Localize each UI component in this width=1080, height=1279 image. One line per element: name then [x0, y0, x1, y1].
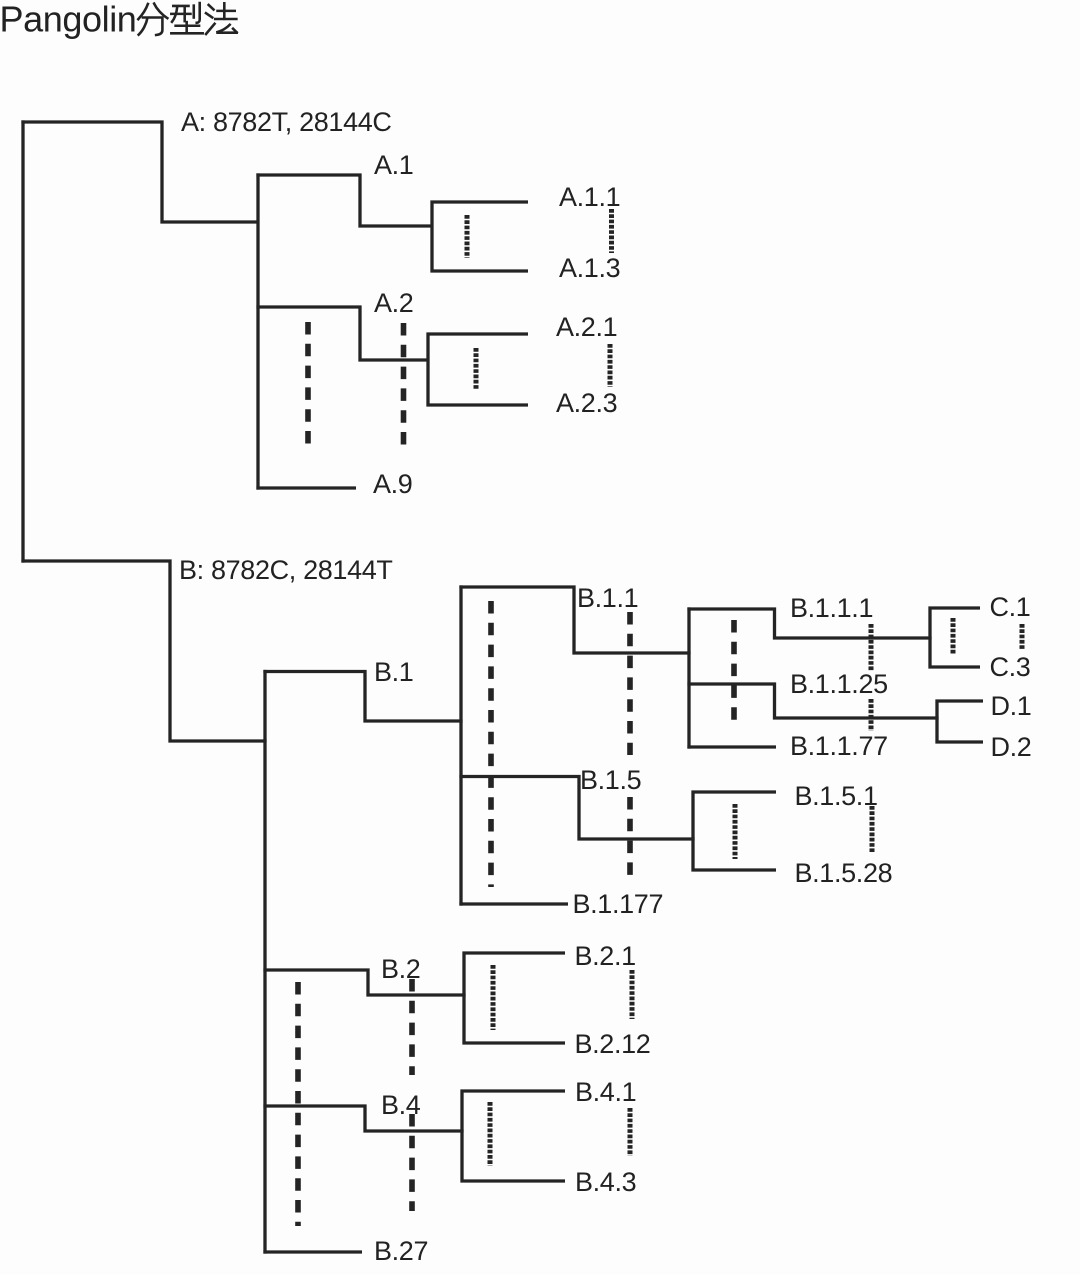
dotted A.1 bracket [465, 215, 470, 258]
clade bracket C.1-C.3 [928, 606, 980, 668]
svg-text:B.2.12: B.2.12 [575, 1029, 651, 1059]
clade bracket A.1.1-A.1.3 [430, 200, 528, 272]
wire A top [21, 120, 259, 223]
dotted B.2 bracket [491, 965, 496, 1030]
clade bracket B.4.1-B.4.3 [460, 1089, 565, 1182]
svg-text:A.2.3: A.2.3 [556, 388, 617, 418]
dotted B.4 bracket [488, 1102, 493, 1166]
title CJK 法 [206, 3, 237, 34]
branch A.9 [256, 486, 356, 489]
dashed lineages under A.2 right [401, 323, 407, 449]
branch B.1.1.1 [687, 607, 931, 639]
clade bracket B.2.1-B.2.12 [462, 951, 565, 1044]
clade bracket B.1.1 children [687, 607, 690, 748]
dashed lineages in B.1 bracket [488, 601, 494, 887]
dashed lineages B.1.1/B.1.5 column lower [627, 797, 633, 875]
dotted B.1.5 bracket [733, 804, 738, 859]
branch B.2 [263, 968, 465, 996]
svg-text:B.1: B.1 [374, 657, 413, 687]
svg-text:B.1.1: B.1.1 [577, 583, 638, 613]
dotted below B.1.1.25 [869, 699, 874, 731]
branch B.1.177 [459, 902, 568, 905]
dotted between B.4.1 and B.4.3 [628, 1108, 633, 1156]
dashed lineages B.1.1/B.1.5 column upper [627, 612, 633, 755]
svg-text:B.2.1: B.2.1 [575, 941, 636, 971]
dotted between B.1.5.1 and B.1.5.28 [870, 806, 875, 852]
wire B top [21, 559, 266, 742]
svg-text:B.1.1.77: B.1.1.77 [790, 731, 888, 761]
branch B.1.1 [459, 585, 690, 654]
dashed lineages under A.2 left [305, 322, 311, 448]
svg-text:B: 8782C, 28144T: B: 8782C, 28144T [179, 555, 393, 585]
svg-text:B.1.5: B.1.5 [580, 765, 641, 795]
branch B.1 [263, 670, 462, 723]
dashed lineages B.1.1.x column [731, 620, 737, 728]
svg-text:A.2: A.2 [374, 288, 413, 318]
svg-text:B.4.1: B.4.1 [575, 1077, 636, 1107]
clade bracket B.1.5.1-B.1.5.28 [691, 790, 776, 871]
clade bracket A.2.1-A.2.3 [426, 332, 528, 406]
wire B spine [263, 670, 266, 1254]
svg-text:B.4: B.4 [381, 1090, 421, 1120]
dashed lineages B.4 column [409, 1114, 415, 1211]
svg-text:A.1.3: A.1.3 [559, 253, 620, 283]
title CJK 分 [138, 4, 167, 35]
svg-text:B.1.5.28: B.1.5.28 [795, 858, 893, 888]
dotted between C.1 and C.3 [1020, 624, 1025, 650]
fine dotted elision marks [467, 209, 1022, 1166]
svg-text:B.1.177: B.1.177 [573, 889, 664, 919]
dotted A.2 bracket [474, 348, 479, 390]
coarse dashed elided lineage marks [298, 322, 734, 1226]
svg-text:B.4.3: B.4.3 [575, 1167, 636, 1197]
branch B.27 [263, 1250, 362, 1253]
branch A.2 [256, 305, 428, 361]
branch B.1.1.77 [687, 745, 776, 748]
svg-text:Pangolin: Pangolin [0, 0, 136, 40]
svg-text:A.1: A.1 [374, 150, 413, 180]
dotted C bracket [951, 618, 956, 654]
title CJK 型 [171, 3, 202, 33]
svg-text:D.2: D.2 [991, 732, 1032, 762]
svg-text:A.9: A.9 [373, 469, 412, 499]
svg-text:A: 8782T, 28144C: A: 8782T, 28144C [181, 107, 392, 137]
dotted between A.1.1 and A.1.3 [609, 209, 614, 253]
svg-text:C.1: C.1 [990, 592, 1031, 622]
svg-text:A.1.1: A.1.1 [559, 182, 620, 212]
root spine [21, 120, 24, 562]
dotted between A.2.1 and A.2.3 [608, 344, 613, 387]
svg-text:B.1.5.1: B.1.5.1 [795, 781, 878, 811]
branch B.1.5 [459, 775, 694, 841]
svg-text:B.1.1.1: B.1.1.1 [790, 593, 873, 623]
dotted below B.1.1.1 [869, 624, 874, 671]
dotted between B.2.1 and B.2.12 [630, 970, 635, 1019]
branch B.4 [263, 1104, 463, 1132]
wire A spine [256, 173, 259, 489]
svg-text:B.1.1.25: B.1.1.25 [790, 669, 888, 699]
svg-text:B.2: B.2 [381, 954, 420, 984]
svg-text:A.2.1: A.2.1 [556, 312, 617, 342]
dashed lineages B.2 column [409, 979, 415, 1075]
branch B.1.1.25 [687, 682, 938, 719]
svg-text:C.3: C.3 [990, 652, 1031, 682]
svg-text:D.1: D.1 [991, 691, 1032, 721]
dashed lineages B.2/B.4 left column [295, 982, 301, 1226]
svg-text:B.27: B.27 [374, 1236, 428, 1266]
clade bracket D.1-D.2 [935, 699, 983, 743]
clade bracket B.1 children [459, 585, 462, 905]
branch A.1 [256, 173, 432, 227]
